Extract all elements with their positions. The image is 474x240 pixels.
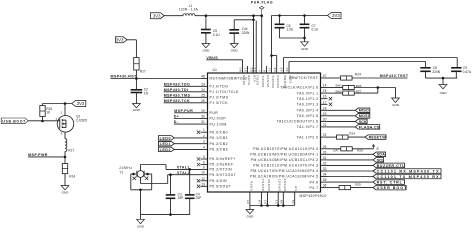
svg-text:TA0.3/P1.4: TA0.3/P1.4 <box>297 109 319 113</box>
svg-text:50: 50 <box>239 67 243 72</box>
svg-text:1: 1 <box>203 128 205 132</box>
svg-text:TA0.4/P1.5: TA0.4/P1.5 <box>297 114 319 118</box>
svg-text:MSP430.TCK: MSP430.TCK <box>164 99 190 103</box>
svg-text:PM.UCB1SIMO/PM.UCB1SDA/P4.1: PM.UCB1SIMO/PM.UCB1SDA/P4.1 <box>250 153 318 157</box>
svg-text:GND: GND <box>440 91 448 95</box>
svg-text:PJ.3/TCK: PJ.3/TCK <box>210 101 229 105</box>
svg-text:CC1101 TX MSP430 RX: CC1101 TX MSP430 RX <box>377 175 440 179</box>
svg-text:31: 31 <box>323 156 327 160</box>
svg-text:1.0U: 1.0U <box>287 28 294 32</box>
svg-text:3V3: 3V3 <box>116 37 124 42</box>
svg-text:0.1U: 0.1U <box>213 33 220 37</box>
svg-text:VP: VP <box>294 186 298 191</box>
svg-text:XTAL2: XTAL2 <box>177 171 190 175</box>
svg-text:TA1CLK/CBOUT/P1.6: TA1CLK/CBOUT/P1.6 <box>277 120 319 124</box>
svg-text:24P: 24P <box>196 196 202 200</box>
svg-text:27: 27 <box>274 199 278 204</box>
svg-text:29: 29 <box>201 109 205 113</box>
svg-text:VSSU: VSSU <box>256 75 260 85</box>
svg-text:PJ.1/TDI/TCLK: PJ.1/TDI/TCLK <box>210 90 240 94</box>
svg-text:RST. CTRL: RST. CTRL <box>377 181 403 185</box>
svg-text:220N: 220N <box>242 31 250 35</box>
svg-text:LED1: LED1 <box>160 142 171 146</box>
svg-text:D+: D+ <box>375 146 379 150</box>
svg-text:37: 37 <box>246 199 250 204</box>
svg-text:6: 6 <box>203 161 205 165</box>
svg-text:36: 36 <box>323 184 327 188</box>
svg-text:MSP430.TDO: MSP430.TDO <box>164 82 191 86</box>
svg-text:DAT: DAT <box>333 149 339 153</box>
svg-text:22: 22 <box>323 133 327 137</box>
svg-text:18: 18 <box>323 106 327 110</box>
svg-text:35: 35 <box>323 178 327 182</box>
svg-text:PM.UCB1CLK/PM.UCA1STE/P4.3: PM.UCB1CLK/PM.UCA1STE/P4.3 <box>253 164 318 168</box>
svg-text:20: 20 <box>323 117 327 121</box>
svg-text:SW2: SW2 <box>335 89 342 93</box>
svg-text:U1: U1 <box>213 68 218 72</box>
svg-text:GND: GND <box>137 225 145 229</box>
svg-text:VBUS: VBUS <box>206 56 218 60</box>
svg-text:GND: GND <box>133 108 141 112</box>
svg-text:MSP.PWR: MSP.PWR <box>28 153 48 157</box>
svg-text:AVSS3: AVSS3 <box>266 75 270 87</box>
svg-text:26: 26 <box>323 150 327 154</box>
svg-text:R14: R14 <box>69 175 75 179</box>
svg-text:DVCC2: DVCC2 <box>276 75 280 88</box>
svg-text:R17: R17 <box>68 148 74 152</box>
svg-text:PM.UCB1SOMI/PM.UCB1SCL/P4.2: PM.UCB1SOMI/PM.UCB1SCL/P4.2 <box>251 158 319 162</box>
svg-text:R27: R27 <box>356 90 362 94</box>
svg-text:48: 48 <box>201 75 205 79</box>
svg-text:R17: R17 <box>140 69 146 73</box>
svg-text:VUSB: VUSB <box>247 75 251 85</box>
svg-text:VSSU: VSSU <box>249 180 253 190</box>
svg-text:26: 26 <box>201 99 205 103</box>
svg-text:0.1U: 0.1U <box>312 28 319 32</box>
svg-text:GND: GND <box>231 49 239 53</box>
svg-text:16: 16 <box>323 95 327 99</box>
svg-text:39: 39 <box>280 67 284 72</box>
svg-text:5: 5 <box>203 155 205 159</box>
svg-text:USB.BOOT: USB.BOOT <box>2 120 26 124</box>
svg-text:VCORE: VCORE <box>283 75 287 88</box>
svg-text:DVSS1: DVSS1 <box>278 178 282 191</box>
svg-text:3: 3 <box>203 140 205 144</box>
svg-text:P4.7: P4.7 <box>310 186 319 190</box>
svg-text:MSP430.TDI: MSP430.TDI <box>164 88 189 92</box>
svg-text:USER BOOT: USER BOOT <box>377 186 408 190</box>
svg-text:25: 25 <box>201 93 205 97</box>
svg-text:CC1101 RX MSP430 TX: CC1101 RX MSP430 TX <box>377 169 440 173</box>
svg-text:PUR: PUR <box>210 111 219 115</box>
svg-text:P6.2/CB2: P6.2/CB2 <box>210 142 229 146</box>
svg-text:28: 28 <box>273 67 277 72</box>
svg-text:13: 13 <box>201 182 205 186</box>
svg-text:21: 21 <box>323 123 327 127</box>
svg-text:MSP430F5510: MSP430F5510 <box>300 194 327 198</box>
svg-text:33: 33 <box>323 167 327 171</box>
svg-text:34: 34 <box>323 173 327 177</box>
svg-text:9: 9 <box>203 165 205 169</box>
svg-text:32: 32 <box>323 161 327 165</box>
svg-text:SDA: SDA <box>377 153 386 157</box>
svg-text:24P: 24P <box>178 196 184 200</box>
svg-text:DVCC1: DVCC1 <box>271 75 275 88</box>
svg-text:R24: R24 <box>355 73 361 77</box>
svg-text:AVSS2: AVSS2 <box>267 179 271 191</box>
svg-text:47: 47 <box>323 74 327 78</box>
svg-text:TA0.2/P1.3: TA0.2/P1.3 <box>297 103 319 107</box>
svg-text:17: 17 <box>323 100 327 104</box>
svg-text:MSP430.TMS: MSP430.TMS <box>164 93 191 97</box>
svg-text:53: 53 <box>252 67 256 72</box>
svg-text:P6.3/CB3: P6.3/CB3 <box>210 148 229 152</box>
svg-text:P5.1/VeREF-: P5.1/VeREF- <box>210 163 235 167</box>
svg-text:R25: R25 <box>355 183 361 187</box>
svg-text:GND: GND <box>62 191 70 195</box>
svg-text:18: 18 <box>258 199 262 204</box>
svg-text:MSP.PUR: MSP.PUR <box>174 109 193 113</box>
svg-text:PJ.0/TDO: PJ.0/TDO <box>210 85 229 89</box>
svg-text:4: 4 <box>203 145 205 149</box>
svg-text:Y1: Y1 <box>120 170 124 174</box>
svg-text:11: 11 <box>268 67 272 71</box>
svg-text:LED2: LED2 <box>160 148 171 152</box>
svg-text:PUR.FLAG: PUR.FLAG <box>251 0 273 4</box>
svg-text:1N: 1N <box>144 91 149 95</box>
svg-text:PJ.2/TMS: PJ.2/TMS <box>210 96 229 100</box>
svg-text:GND: GND <box>301 47 309 51</box>
svg-text:40: 40 <box>285 67 289 72</box>
svg-text:TA1.0/P1.7: TA1.0/P1.7 <box>297 125 319 129</box>
svg-text:PM.UCA1RXD/PM.UCA1SOMI/P4.5: PM.UCA1RXD/PM.UCA1SOMI/P4.5 <box>250 175 318 179</box>
svg-text:31: 31 <box>201 120 205 124</box>
svg-text:7: 7 <box>258 67 262 72</box>
svg-text:23: 23 <box>201 82 205 86</box>
svg-text:VBUS: VBUS <box>242 75 246 85</box>
svg-text:DVSS2: DVSS2 <box>283 178 287 191</box>
svg-text:CJ2305: CJ2305 <box>76 118 87 122</box>
svg-text:220N: 220N <box>432 70 440 74</box>
svg-text:P4.6: P4.6 <box>310 180 319 184</box>
svg-text:D-: D- <box>174 120 179 124</box>
svg-text:15: 15 <box>323 89 327 93</box>
svg-text:P6.1/CB1: P6.1/CB1 <box>210 136 229 140</box>
svg-text:19: 19 <box>323 112 327 116</box>
svg-text:LED0: LED0 <box>160 136 171 140</box>
svg-text:PM.UCA1TXD/PM.UCA1SIMO/P4.4: PM.UCA1TXD/PM.UCA1SIMO/P4.4 <box>251 169 319 173</box>
svg-text:P6.0/CB0: P6.0/CB0 <box>210 130 229 134</box>
svg-text:P5.5/XOUT: P5.5/XOUT <box>210 185 232 189</box>
svg-text:FLASH.CS: FLASH.CS <box>359 125 380 129</box>
svg-text:0.47U: 0.47U <box>463 70 472 74</box>
svg-text:TA0.1/P1.2: TA0.1/P1.2 <box>297 97 319 101</box>
svg-text:D+: D+ <box>174 115 180 119</box>
svg-text:VSW: VSW <box>289 75 293 84</box>
svg-text:SBWTCK/TEST: SBWTCK/TEST <box>289 76 319 80</box>
svg-text:24: 24 <box>201 88 205 92</box>
svg-text:3V3: 3V3 <box>153 13 161 18</box>
svg-text:10: 10 <box>201 171 205 175</box>
svg-text:MISO: MISO <box>359 109 369 113</box>
svg-text:R26: R26 <box>356 84 362 88</box>
svg-text:GND: GND <box>202 49 210 53</box>
svg-text:GND: GND <box>392 103 400 107</box>
svg-text:30: 30 <box>201 115 205 119</box>
svg-text:52: 52 <box>264 199 268 204</box>
svg-text:120R - 1.3A: 120R - 1.3A <box>179 7 199 11</box>
svg-text:25: 25 <box>323 145 327 149</box>
svg-text:SW1: SW1 <box>335 84 342 88</box>
svg-text:2: 2 <box>203 134 205 138</box>
svg-text:51: 51 <box>244 67 248 72</box>
svg-text:PU.1/DM: PU.1/DM <box>210 122 227 126</box>
svg-text:14: 14 <box>323 84 327 88</box>
svg-text:P5.2/XT2IN: P5.2/XT2IN <box>210 168 233 172</box>
svg-text:SCK: SCK <box>359 120 367 124</box>
svg-text:MSP430.RST: MSP430.RST <box>111 75 138 79</box>
svg-text:3V3: 3V3 <box>332 13 340 18</box>
svg-text:PU.0/DP: PU.0/DP <box>210 117 227 121</box>
svg-text:P5.0/VeREF+: P5.0/VeREF+ <box>210 157 236 161</box>
svg-text:MOSI: MOSI <box>359 114 369 118</box>
svg-text:AVCC1: AVCC1 <box>261 75 265 88</box>
svg-text:12: 12 <box>201 177 205 181</box>
svg-text:38: 38 <box>279 199 283 204</box>
svg-text:MSP430.TEST: MSP430.TEST <box>380 74 409 78</box>
svg-text:P5.4/XIN: P5.4/XIN <box>210 179 228 183</box>
svg-text:3V3: 3V3 <box>77 101 85 106</box>
svg-text:AVSS1: AVSS1 <box>261 179 265 191</box>
svg-text:P5.3/XT2OUT: P5.3/XT2OUT <box>210 173 237 177</box>
svg-text:RESET.W: RESET.W <box>369 136 387 140</box>
svg-text:8: 8 <box>263 67 267 72</box>
svg-text:TA1.1/P2.0: TA1.1/P2.0 <box>297 135 319 139</box>
svg-text:PM.UCB1STE/PM.UCA1CLK/P4.0: PM.UCB1STE/PM.UCA1CLK/P4.0 <box>253 147 318 151</box>
svg-text:SCL: SCL <box>377 158 385 162</box>
svg-text:TA0.0/P1.1: TA0.0/P1.1 <box>297 91 319 95</box>
svg-text:GND: GND <box>246 215 254 219</box>
svg-text:R29: R29 <box>349 131 355 135</box>
svg-text:XTAL1: XTAL1 <box>177 166 190 170</box>
svg-text:BUZZER.CTL: BUZZER.CTL <box>377 164 405 168</box>
svg-text:49: 49 <box>291 199 295 204</box>
